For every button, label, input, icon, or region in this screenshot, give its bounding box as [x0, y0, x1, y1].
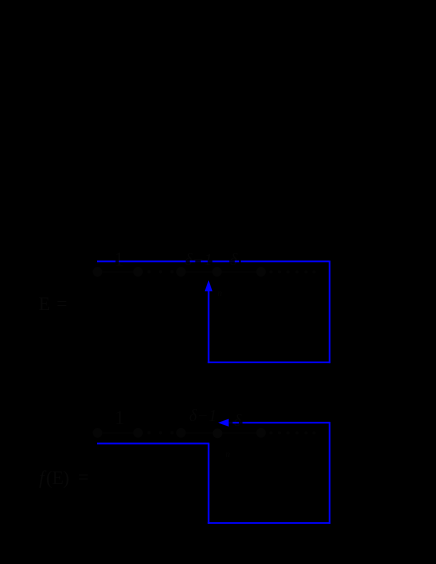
- label E = (left of figure 1): [39, 294, 68, 315]
- node t2: [133, 428, 143, 438]
- wire: right edge of blue loop (fig2): [329, 422, 331, 524]
- label cuts in blue line (fig1): [116, 260, 241, 263]
- svg-text:1: 1: [115, 407, 125, 429]
- svg-text:n: n: [218, 288, 223, 298]
- svg-text:=: =: [78, 468, 89, 489]
- svg-text:=: =: [57, 294, 68, 315]
- svg-text:δ−1: δ−1: [189, 406, 217, 425]
- chain edge t1-t2 (dark, fig2): [97, 432, 140, 434]
- node t3: [176, 428, 186, 438]
- label cuts in blue arrow line (fig2): [228, 421, 243, 424]
- wire: blue top line of figure 1: [97, 260, 330, 262]
- ellipsis dots between t2 and t3: [147, 431, 173, 434]
- node s1: [93, 267, 103, 277]
- arrowhead pointing up (fig1): [205, 280, 213, 291]
- node t1: [93, 428, 103, 438]
- wire: left edge of blue loop (fig2): [208, 444, 210, 524]
- wire: bottom edge of blue loop (fig1): [208, 361, 331, 363]
- chain edge t3-t5 (dark, fig2): [179, 432, 261, 434]
- node s5: [256, 267, 266, 277]
- chain edge s1-s2 (dark): [97, 271, 140, 273]
- wire: right edge of blue loop (fig1): [329, 261, 331, 364]
- wire: blue left entry line (fig2): [97, 443, 209, 445]
- svg-text:δ: δ: [234, 411, 243, 430]
- wire: blue arrow line at top of figure 2: [228, 422, 330, 424]
- node s3: [176, 267, 186, 277]
- dotted continuation of chain (fig2): [269, 431, 315, 434]
- arrowhead pointing left (fig2): [218, 419, 229, 427]
- dotted continuation of chain (fig1): [269, 270, 315, 273]
- wire: arrow shaft of blue loop (fig1): [208, 290, 210, 363]
- chain edge s3-s5 (dark): [179, 271, 261, 273]
- svg-text:δ−1: δ−1: [185, 250, 213, 269]
- svg-text:1: 1: [114, 249, 124, 271]
- wire: bottom edge of blue loop (fig2): [208, 522, 331, 524]
- node t5: [256, 428, 266, 438]
- svg-text:E: E: [52, 468, 64, 489]
- svg-text:δ: δ: [230, 250, 239, 269]
- label f(E) = (left of figure 2): [39, 468, 89, 490]
- svg-text:E: E: [39, 294, 51, 315]
- node s4: [212, 267, 222, 277]
- svg-text:n: n: [226, 449, 231, 459]
- svg-text:): ): [63, 468, 69, 489]
- ellipsis dots between s2 and s3: [147, 270, 173, 273]
- node t4: [213, 428, 223, 438]
- node s2: [133, 267, 143, 277]
